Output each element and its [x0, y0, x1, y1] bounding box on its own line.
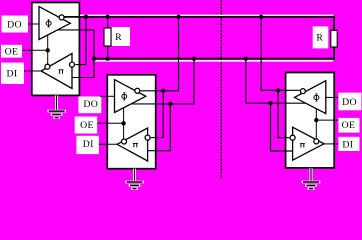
label box OE (node OE, transceiver 3) — [338, 118, 359, 133]
junction dot bus B T1 — [92, 57, 96, 61]
junction dot net A T3 — [276, 88, 280, 92]
junction dot net B T2 — [168, 102, 172, 106]
wire D3 true output to bus B — [246, 59, 306, 104]
wire D2 inverting output to bus A — [141, 17, 179, 91]
svg-text:OE: OE — [80, 120, 94, 131]
transceiver 1 box (U1) — [32, 3, 80, 96]
wire OE T2 — [97, 122, 123, 124]
receiver RC1 triangle — [41, 54, 72, 89]
label box DO (node DO, transceiver 3) — [338, 93, 361, 111]
wire DI output T3 — [324, 143, 339, 145]
svg-text:R: R — [316, 33, 323, 44]
driver D1 triangle — [39, 7, 70, 40]
label box OE (node OE, transceiver 2) — [75, 117, 98, 134]
svg-text:DO: DO — [342, 97, 357, 108]
terminator R2 body — [331, 30, 337, 47]
junction dot bus B tap T3 — [244, 57, 248, 61]
wire DI output T1 — [24, 70, 42, 72]
transceiver 2 box (U2) — [107, 75, 155, 169]
driver D3 inverting output bubble — [300, 89, 305, 94]
wire D3 inverting output to bus A — [261, 17, 300, 90]
label box R (terminator R1) — [112, 27, 130, 46]
svg-text:DO: DO — [83, 99, 98, 110]
junction dot T2 enable — [121, 121, 125, 125]
wire DO input T2 — [100, 95, 115, 97]
wire RC2 inverting input tap — [151, 91, 163, 138]
receiver RC1 enable bubble — [45, 64, 50, 69]
label box DI (node DI, transceiver 3) — [338, 137, 359, 151]
junction dot net B T3 — [268, 101, 272, 105]
wire bus A (top line) — [64, 17, 334, 30]
receiver RC1 input bubble — [70, 62, 75, 67]
wire bus A white halo — [80, 14, 333, 16]
receiver RC2 input bubble — [145, 135, 150, 140]
junction dot bus A tap T1 — [84, 15, 88, 19]
transceiver 3 box (U3) — [286, 73, 335, 168]
receiver RC2 pi label — [133, 143, 138, 147]
receiver RC1 pi label — [59, 70, 64, 74]
ground G2 — [125, 169, 144, 190]
junction dot bus A tap T3 — [259, 15, 263, 19]
svg-text:DI: DI — [7, 68, 18, 79]
receiver RC2 enable bubble — [122, 139, 127, 144]
wire D1 true output to bus B — [57, 30, 94, 78]
junction dot bus A R1 — [105, 15, 109, 19]
driver D2 triangle — [115, 80, 146, 113]
wire DO input T1 — [28, 23, 39, 25]
label box R (terminator R2) — [313, 26, 329, 48]
wire RC1 inverting input to bus A — [75, 17, 86, 65]
driver D3 phi label — [314, 94, 319, 101]
junction dot T3 enable — [314, 118, 318, 122]
wire T1 enable vertical — [47, 35, 49, 64]
wire RC3 inverting input tap — [278, 90, 289, 137]
junction dot bus B R1 — [105, 57, 109, 61]
label box DI (node DI, transceiver 2) — [76, 136, 99, 154]
label box DI (node DI, transceiver 1) — [1, 63, 24, 84]
junction dot bus B tap T2 — [192, 57, 196, 61]
svg-text:DO: DO — [7, 19, 22, 30]
receiver RC3 enable bubble — [314, 139, 319, 144]
svg-text:OE: OE — [5, 47, 19, 58]
wire bus B (second line) — [94, 47, 334, 59]
label box OE (node OE, transceiver 1) — [1, 45, 22, 58]
junction dot T1 enable — [46, 48, 50, 52]
wire RC1 noninverting input — [72, 77, 94, 79]
receiver RC3 triangle — [293, 127, 324, 160]
wire D2 true output to bus B — [131, 59, 194, 104]
receiver RC3 pi label — [300, 144, 305, 148]
label box DO (node DO, transceiver 2) — [78, 97, 101, 114]
terminator R1 leads — [107, 17, 109, 59]
driver D2 inverting output bubble — [135, 88, 140, 93]
receiver RC3 input bubble — [290, 135, 295, 140]
wire DI output T2 — [99, 143, 118, 145]
wire T2 enable vertical — [123, 108, 125, 139]
ground G3 — [302, 168, 321, 190]
wire DO input T3 — [326, 96, 339, 98]
terminator R1 body — [104, 28, 111, 46]
svg-text:OE: OE — [342, 120, 356, 131]
driver D3 triangle — [295, 81, 326, 114]
cable segment divider (dashed line) — [220, 0, 222, 179]
svg-text:DI: DI — [83, 139, 94, 150]
label box DO (node DO, transceiver 1) — [2, 16, 29, 33]
wire T3 enable vertical — [315, 109, 317, 139]
junction dot net A T2 — [161, 89, 165, 93]
ground G1 — [47, 95, 66, 119]
driver D1 inverting output bubble — [59, 15, 64, 20]
wire OE T1 — [22, 49, 48, 51]
junction dot bus A tap T2 — [176, 15, 180, 19]
driver D2 phi label — [122, 93, 127, 100]
receiver RC2 triangle — [117, 128, 148, 161]
svg-text:R: R — [115, 32, 122, 43]
wire RC3 noninverting input tap — [271, 103, 293, 151]
wire bus B white halo — [95, 60, 334, 62]
wire RC2 noninverting input tap — [148, 104, 171, 151]
wire OE T3 — [316, 119, 338, 121]
svg-text:DI: DI — [342, 139, 353, 150]
driver D1 phi label — [46, 20, 51, 27]
